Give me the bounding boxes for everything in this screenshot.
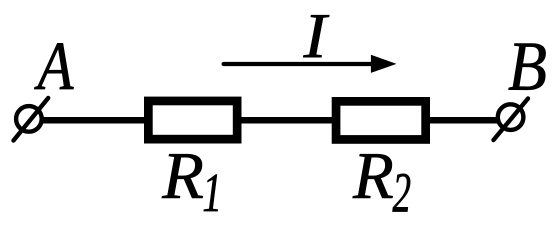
wire A to R1 [42, 117, 146, 124]
resistor R1 label subscript 1 [204, 174, 218, 211]
node A terminal slash [14, 98, 49, 141]
node B terminal circle [498, 104, 524, 130]
node B terminal slash [494, 99, 529, 141]
resistor R1 body [148, 101, 237, 139]
node A label [34, 43, 73, 89]
wire R2 to B [429, 117, 498, 124]
wire R1 to R2 [240, 117, 333, 124]
node B label [509, 44, 546, 90]
node A terminal circle [16, 106, 42, 132]
resistor R1 label R [162, 154, 203, 198]
current label I [303, 15, 329, 57]
resistor R2 body [336, 101, 426, 139]
resistor R2 label R [353, 154, 393, 198]
resistor R2 label subscript 2 [393, 174, 411, 212]
current arrow head [371, 55, 395, 72]
current arrow shaft [224, 62, 374, 66]
